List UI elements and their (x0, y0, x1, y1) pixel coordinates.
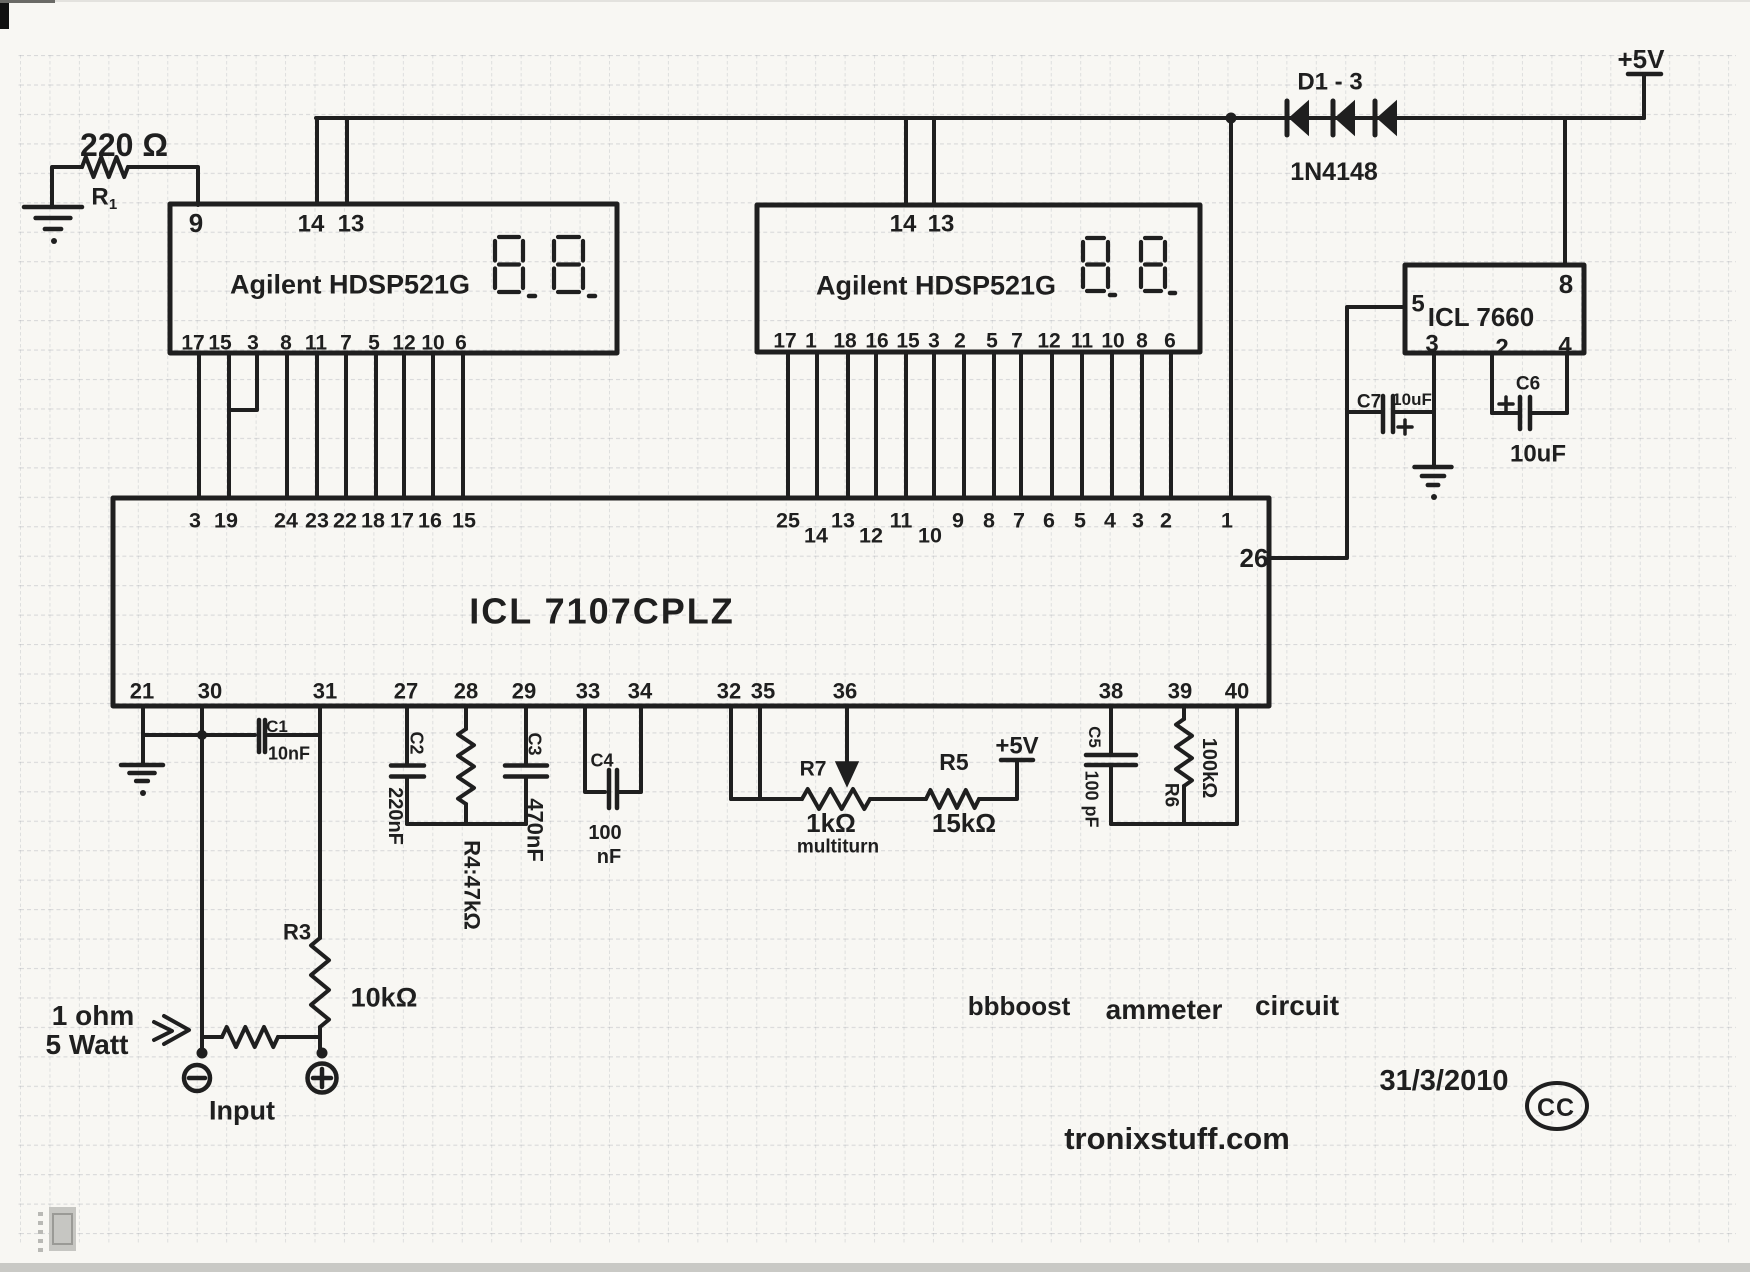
wire: C3 bottom to rail (524, 777, 528, 824)
svg-text:33: 33 (576, 679, 600, 704)
svg-text:24: 24 (274, 509, 298, 533)
svg-text:14: 14 (804, 524, 828, 548)
wire: display1 column x=229 to ICL7107 (227, 353, 231, 498)
wire: display2 column x=934 to ICL7107 (932, 352, 936, 498)
svg-text:16: 16 (865, 329, 888, 352)
wire: display2 column x=1052 to ICL7107 (1050, 352, 1054, 498)
power +5V (top right) (1618, 44, 1666, 118)
wire: display2 column x=876 to ICL7107 (874, 352, 878, 498)
wire: display2 column x=788 to ICL7107 (786, 352, 790, 498)
wire: R7 to R5 (870, 797, 926, 801)
svg-text:14: 14 (298, 210, 325, 237)
IC U1 ICL 7107CPLZ body (113, 498, 1269, 706)
svg-text:25: 25 (776, 509, 800, 533)
wire: display2 column x=1171 to ICL7107 (1169, 352, 1173, 498)
ICL7660 pin 3 label (1425, 330, 1438, 357)
display2 digit 1 decimal point (1110, 293, 1115, 298)
label C5 value 100 pF (1082, 770, 1102, 827)
display2 bottom pin number labels (773, 329, 1176, 352)
label display1 name (230, 269, 470, 299)
wire: ICL7107 pin 29 stub (524, 706, 528, 765)
wire: pin2 to capacitor C6 (1492, 411, 1519, 415)
svg-text:10: 10 (1101, 329, 1124, 352)
svg-text:36: 36 (833, 679, 857, 704)
wire: display1 column x=404 to ICL7107 (402, 353, 406, 498)
junction: pin30 and analog common rail (197, 730, 207, 740)
wire: R4 bottom to rail (464, 804, 468, 824)
svg-text:R3: R3 (283, 920, 311, 945)
display U3 Agilent HDSP521G (right) body (757, 205, 1200, 352)
wire: C2 bottom to rail (405, 777, 409, 824)
wire: display1 pin3 jog to pin19 column (231, 353, 257, 410)
label C3 value 470nF (522, 798, 547, 862)
svg-text:14: 14 (890, 210, 917, 237)
display1 digit 1 decimal point (529, 294, 535, 299)
svg-text:C4: C4 (590, 750, 613, 770)
svg-text:C7: C7 (1357, 392, 1381, 413)
svg-text:+5V: +5V (995, 732, 1038, 759)
svg-text:26: 26 (1240, 543, 1269, 573)
wire: ICL7107 pin 21 stub (141, 706, 145, 735)
wire: display1 column x=376 to ICL7107 (374, 353, 378, 498)
wire: display2 column x=964 to ICL7107 (962, 352, 966, 498)
svg-text:30: 30 (198, 679, 222, 704)
svg-text:39: 39 (1168, 679, 1192, 704)
diode D3 1N4148 (1375, 101, 1396, 135)
svg-text:1: 1 (1221, 509, 1233, 533)
capacitor C3 plates (505, 766, 547, 777)
wire: display1 column x=287 to ICL7107 (285, 353, 289, 498)
svg-text:220 Ω: 220 Ω (80, 127, 168, 163)
svg-text:18: 18 (833, 329, 857, 352)
display2 pin 14 label (890, 210, 917, 237)
capacitor C6 plates (1520, 397, 1530, 429)
svg-text:100: 100 (588, 822, 621, 844)
svg-text:1N4148: 1N4148 (1290, 158, 1378, 186)
svg-text:16: 16 (418, 509, 442, 533)
wire: C6 to pin4 (1531, 411, 1567, 415)
svg-text:10uF: 10uF (1510, 440, 1566, 467)
svg-text:5: 5 (368, 331, 380, 354)
wire: ICL7107 pin 38 stub (1109, 706, 1113, 754)
wire: ICL7660 pin 3 to ground (1432, 353, 1436, 467)
label R1 value 220 ohm (80, 127, 168, 163)
svg-text:2: 2 (954, 329, 966, 352)
wire: display2 column x=1021 to ICL7107 (1019, 352, 1023, 498)
input minus terminal (184, 1065, 210, 1091)
svg-text:220nF: 220nF (384, 787, 406, 845)
svg-text:12: 12 (1037, 329, 1060, 352)
svg-text:3: 3 (928, 329, 940, 352)
svg-text:32: 32 (717, 679, 741, 704)
wire: display2 column x=817 to ICL7107 (815, 352, 819, 498)
diode D2 1N4148 (1333, 101, 1354, 135)
svg-text:13: 13 (928, 210, 955, 237)
CC licence mark (1527, 1083, 1587, 1129)
wire: bus to ICL7660 pin 8 (1563, 118, 1567, 265)
svg-text:38: 38 (1099, 679, 1123, 704)
junction: input minus terminal (197, 1048, 208, 1059)
label R6 (1160, 783, 1181, 807)
svg-text:1kΩ: 1kΩ (806, 808, 856, 838)
svg-text:circuit: circuit (1255, 990, 1339, 1021)
svg-text:15: 15 (452, 509, 476, 533)
wire: pin32/35 to R7 (731, 797, 802, 801)
label R7 (800, 757, 827, 780)
wire: ICL7107 pin 27 stub (405, 706, 409, 764)
wire: display2 column x=848 to ICL7107 (846, 352, 850, 498)
svg-text:15kΩ: 15kΩ (932, 808, 996, 838)
wire: C2/R4/C3 bottom rail (407, 822, 526, 826)
svg-text:8: 8 (1559, 269, 1573, 299)
svg-text:5 Watt: 5 Watt (46, 1029, 129, 1060)
label shunt value 1 ohm (52, 1000, 134, 1031)
wire: ICL7107 pin 28 stub (464, 706, 468, 729)
svg-text:1: 1 (805, 329, 817, 352)
wire: +5V top bus (316, 116, 1644, 120)
svg-text:multiturn: multiturn (797, 837, 879, 858)
svg-text:470nF: 470nF (522, 798, 547, 862)
label R5 (939, 749, 969, 775)
svg-text:8: 8 (1136, 329, 1148, 352)
date text 31/3/2010 (1379, 1065, 1508, 1097)
display1 pin 14 label (298, 210, 325, 237)
svg-text:Agilent HDSP521G: Agilent HDSP521G (816, 270, 1056, 300)
label C2 value 220nF (384, 787, 406, 845)
diode D1 1N4148 (1287, 101, 1308, 135)
wire: display2 column x=906 to ICL7107 (904, 352, 908, 498)
label ICL7107 pin 26 (1240, 543, 1269, 573)
wire: ground to resistor R1 left lead (52, 167, 82, 207)
wire: ICL7107 pin 39 stub (1182, 706, 1186, 719)
credit text tronixstuff.com (1064, 1121, 1290, 1156)
resistor R3 10k zigzag (311, 938, 329, 1027)
svg-text:23: 23 (305, 509, 329, 533)
label C7 value 10uF (1392, 390, 1432, 409)
svg-text:3: 3 (1132, 509, 1144, 533)
display2 seven-segment digit 2 (1141, 238, 1165, 291)
capacitor C5 plates (1086, 755, 1136, 765)
wire: C5 bottom to rail (1109, 765, 1113, 824)
svg-text:19: 19 (214, 509, 238, 533)
ICL7660 pin 5 label (1411, 290, 1424, 317)
arrow pointing at shunt resistor (154, 1016, 189, 1044)
watermark stamp (38, 1207, 76, 1252)
junction: input plus terminal (317, 1048, 328, 1059)
svg-text:ICL 7107CPLZ: ICL 7107CPLZ (469, 591, 734, 632)
svg-text:21: 21 (130, 679, 154, 704)
svg-text:13: 13 (338, 210, 365, 237)
C7 plus sign (1398, 420, 1412, 434)
capacitor C4 plates (609, 770, 617, 808)
ICL7660 pin 2 label (1495, 334, 1508, 361)
title text circuit (1255, 990, 1339, 1021)
wire: display1 pin14 to bus (315, 118, 319, 204)
label C1 value 10nF (268, 743, 310, 763)
display2 seven-segment digit 1 (1083, 238, 1108, 291)
wire: R3 to input plus (318, 1027, 322, 1053)
display U2 Agilent HDSP521G (left) body (170, 204, 617, 353)
label display2 name (816, 270, 1056, 300)
svg-text:10uF: 10uF (1392, 390, 1432, 409)
wire: ICL7107 pin 35 stub (758, 706, 762, 799)
svg-text:nF: nF (597, 846, 621, 868)
svg-text:100kΩ: 100kΩ (1198, 738, 1220, 799)
ICL7107 top pin number labels (offset row) (804, 524, 942, 548)
svg-text:11: 11 (890, 509, 913, 533)
label R6 value 100k ohm (1198, 738, 1220, 799)
display1 seven-segment digit 1 (495, 237, 523, 292)
label R1 refdes (91, 183, 117, 213)
svg-text:ammeter: ammeter (1106, 994, 1223, 1025)
wire: display2 pin13 to bus (932, 118, 936, 205)
svg-text:+5V: +5V (1618, 44, 1666, 74)
wire: bus junction down to ICL7107 pin 1 (1229, 118, 1233, 498)
svg-text:C3: C3 (525, 732, 545, 755)
resistor R2 zigzag (222, 1027, 278, 1047)
ground (below ICL7660 pin 3) (1415, 467, 1452, 500)
ICL7107 top pin number labels (189, 509, 1233, 533)
svg-text:12: 12 (859, 524, 883, 548)
svg-text:17: 17 (181, 331, 204, 354)
wire: pin21 node to capacitor C1 (143, 733, 255, 737)
C6 plus sign (1499, 397, 1513, 411)
wire: R1 right lead to display1 pin 9 (128, 167, 198, 205)
ground (left of R1) (24, 207, 82, 244)
resistor R4 zigzag (458, 729, 474, 804)
svg-text:9: 9 (952, 509, 964, 533)
capacitor C7 plates (1383, 396, 1393, 432)
label C1 (266, 717, 288, 736)
svg-text:4: 4 (1104, 509, 1116, 533)
svg-text:1 ohm: 1 ohm (52, 1000, 134, 1031)
svg-text:27: 27 (394, 679, 418, 704)
wire: ICL7107 pin 33 stub (585, 706, 605, 792)
svg-text:C1: C1 (266, 717, 288, 736)
label C3 (525, 732, 545, 755)
wire: pin26 net to capacitor C7 (1347, 410, 1382, 414)
svg-text:CC: CC (1537, 1094, 1575, 1122)
display1 bottom pin number labels (181, 331, 467, 354)
svg-text:6: 6 (1164, 329, 1176, 352)
label shunt value 5 Watt (46, 1029, 129, 1060)
svg-text:bbboost: bbboost (968, 991, 1071, 1021)
wire: ICL7107 pin 31 down to R3 (318, 706, 322, 938)
svg-text:7: 7 (1011, 329, 1023, 352)
svg-text:8: 8 (983, 509, 995, 533)
wire: C7 to ICL7660 pin 3 net (1394, 410, 1434, 414)
svg-text:100 pF: 100 pF (1082, 770, 1102, 827)
label R3 (283, 920, 311, 945)
label C4 value 100 (588, 822, 621, 844)
svg-text:34: 34 (628, 679, 653, 704)
svg-text:29: 29 (512, 679, 536, 704)
ICL7107 bottom pin number labels (130, 679, 1249, 704)
svg-text:40: 40 (1225, 679, 1249, 704)
ground (below pin 21) (121, 765, 163, 796)
label C4 (590, 750, 613, 770)
svg-text:7: 7 (340, 331, 352, 354)
wire: ICL7107 pin 32 stub (729, 706, 733, 799)
capacitor C1 plates (259, 720, 265, 752)
svg-text:5: 5 (986, 329, 998, 352)
wire: R2 right lead (278, 1035, 320, 1039)
junction: bus to ICL7107 pin1 (1226, 113, 1237, 124)
label C6 value 10uF (1510, 440, 1566, 467)
svg-text:15: 15 (896, 329, 920, 352)
svg-text:R4:47kΩ: R4:47kΩ (459, 840, 484, 930)
R7 wiper arrow (836, 762, 858, 786)
svg-text:5: 5 (1074, 509, 1086, 533)
potentiometer R7 1k zigzag (802, 789, 870, 809)
wire: ICL7660 pin5 to ICL7107 pin 26 (1269, 307, 1405, 558)
wire: display1 column x=433 to ICL7107 (431, 353, 435, 498)
svg-text:R5: R5 (939, 749, 969, 775)
svg-text:9: 9 (189, 208, 203, 238)
svg-text:tronixstuff.com: tronixstuff.com (1064, 1121, 1290, 1156)
ICL7660 pin 8 label (1559, 269, 1573, 299)
svg-text:C2: C2 (407, 731, 427, 754)
svg-text:D1 - 3: D1 - 3 (1297, 68, 1362, 95)
display2 digit 2 decimal point (1170, 291, 1175, 296)
wire: display1 column x=463 to ICL7107 (461, 353, 465, 498)
wire: display2 column x=1082 to ICL7107 (1080, 352, 1084, 498)
wire: ICL7660 pin 2 stub (1490, 353, 1494, 413)
label R4 value 47k (459, 840, 484, 930)
svg-text:12: 12 (392, 331, 415, 354)
label 1N4148 (1290, 158, 1378, 186)
svg-text:ICL 7660: ICL 7660 (1428, 302, 1534, 332)
svg-text:10nF: 10nF (268, 743, 310, 763)
svg-text:10kΩ: 10kΩ (351, 983, 418, 1013)
label Input (209, 1096, 275, 1126)
svg-text:3: 3 (247, 331, 259, 354)
wire: display2 pin14 to bus (904, 118, 908, 205)
wire: ICL7107 pin 34 stub (619, 706, 641, 792)
wire: R6 bottom to rail (1182, 786, 1186, 824)
label R7 value 1k ohm (806, 808, 856, 838)
label C6 (1516, 374, 1540, 395)
svg-text:2: 2 (1160, 509, 1172, 533)
svg-text:6: 6 (1043, 509, 1055, 533)
svg-text:R: R (91, 183, 108, 210)
wire: R5 to +5V (979, 760, 1017, 799)
svg-text:11: 11 (305, 331, 328, 354)
display1 pin 9 label (189, 208, 203, 238)
label C4 value nF (597, 846, 621, 868)
svg-text:13: 13 (831, 509, 855, 533)
display2 pin 13 label (928, 210, 955, 237)
ICL7660 pin 4 label (1558, 332, 1572, 359)
svg-text:15: 15 (208, 331, 232, 354)
wire: display1 pin13 to bus (345, 118, 349, 204)
svg-text:1: 1 (109, 196, 117, 213)
wire: display2 column x=1112 to ICL7107 (1110, 352, 1114, 498)
wire: C1 to pin 31 column (268, 733, 320, 737)
input plus terminal (308, 1064, 337, 1093)
svg-text:C5: C5 (1085, 726, 1104, 748)
wire: ICL7660 pin 4 stub (1565, 353, 1569, 413)
svg-text:5: 5 (1411, 290, 1424, 317)
svg-text:17: 17 (390, 509, 414, 533)
wire: display1 column x=317 to ICL7107 (315, 353, 319, 498)
svg-text:18: 18 (361, 509, 385, 533)
wire: display1 column x=346 to ICL7107 (344, 353, 348, 498)
svg-text:10: 10 (421, 331, 444, 354)
svg-text:6: 6 (455, 331, 467, 354)
capacitor C2 plates (391, 766, 424, 777)
svg-text:Input: Input (209, 1096, 275, 1126)
svg-text:8: 8 (280, 331, 292, 354)
svg-text:C6: C6 (1516, 374, 1540, 395)
svg-text:2: 2 (1495, 334, 1508, 361)
label ICL 7107CPLZ (469, 591, 734, 632)
svg-text:Agilent HDSP521G: Agilent HDSP521G (230, 269, 470, 299)
label C2 (407, 731, 427, 754)
svg-text:35: 35 (751, 679, 775, 704)
wire: display2 column x=994 to ICL7107 (992, 352, 996, 498)
label R3 value 10k ohm (351, 983, 418, 1013)
resistor R2 1 ohm shunt (202, 1035, 222, 1039)
display1 pin 13 label (338, 210, 365, 237)
wire: ICL7107 pin 40 stub (1235, 706, 1239, 824)
svg-text:31/3/2010: 31/3/2010 (1379, 1065, 1508, 1097)
label R7 multiturn (797, 837, 879, 858)
wire: ICL7107 pin 30 down to input minus (200, 706, 204, 1053)
resistor R1 220 ohm zigzag (82, 157, 128, 177)
svg-text:7: 7 (1013, 509, 1025, 533)
svg-text:17: 17 (773, 329, 796, 352)
label D1 - 3 (1297, 68, 1362, 95)
title text bbboost (968, 991, 1071, 1021)
display1 seven-segment digit 2 (554, 237, 583, 292)
op-amp U4 ICL 7660 body (1405, 265, 1584, 353)
wire: ICL7107 pin 36 to R7 wiper (845, 706, 849, 762)
display1 digit 2 decimal point (589, 294, 595, 299)
svg-text:11: 11 (1071, 329, 1094, 352)
label ICL 7660 (1428, 302, 1534, 332)
label R5 value 15k ohm (932, 808, 996, 838)
resistor R5 15k zigzag (926, 790, 979, 808)
resistor R6 zigzag (1176, 719, 1192, 786)
svg-text:R6: R6 (1160, 783, 1181, 807)
wire: pin21 node to ground (141, 735, 145, 765)
svg-text:28: 28 (454, 679, 478, 704)
power +5V (near R5) (995, 732, 1038, 760)
svg-text:R7: R7 (800, 757, 827, 780)
wire: display2 column x=1142 to ICL7107 (1140, 352, 1144, 498)
svg-text:31: 31 (313, 679, 337, 704)
svg-text:22: 22 (333, 509, 357, 533)
wire: display1 column x=199 to ICL7107 (197, 353, 201, 498)
svg-text:3: 3 (189, 509, 201, 533)
svg-text:10: 10 (918, 524, 942, 548)
label C5 (1085, 726, 1104, 748)
label C7 (1357, 392, 1381, 413)
wire: C5/R6/pin40 bottom rail (1111, 822, 1237, 826)
title text ammeter (1106, 994, 1223, 1025)
